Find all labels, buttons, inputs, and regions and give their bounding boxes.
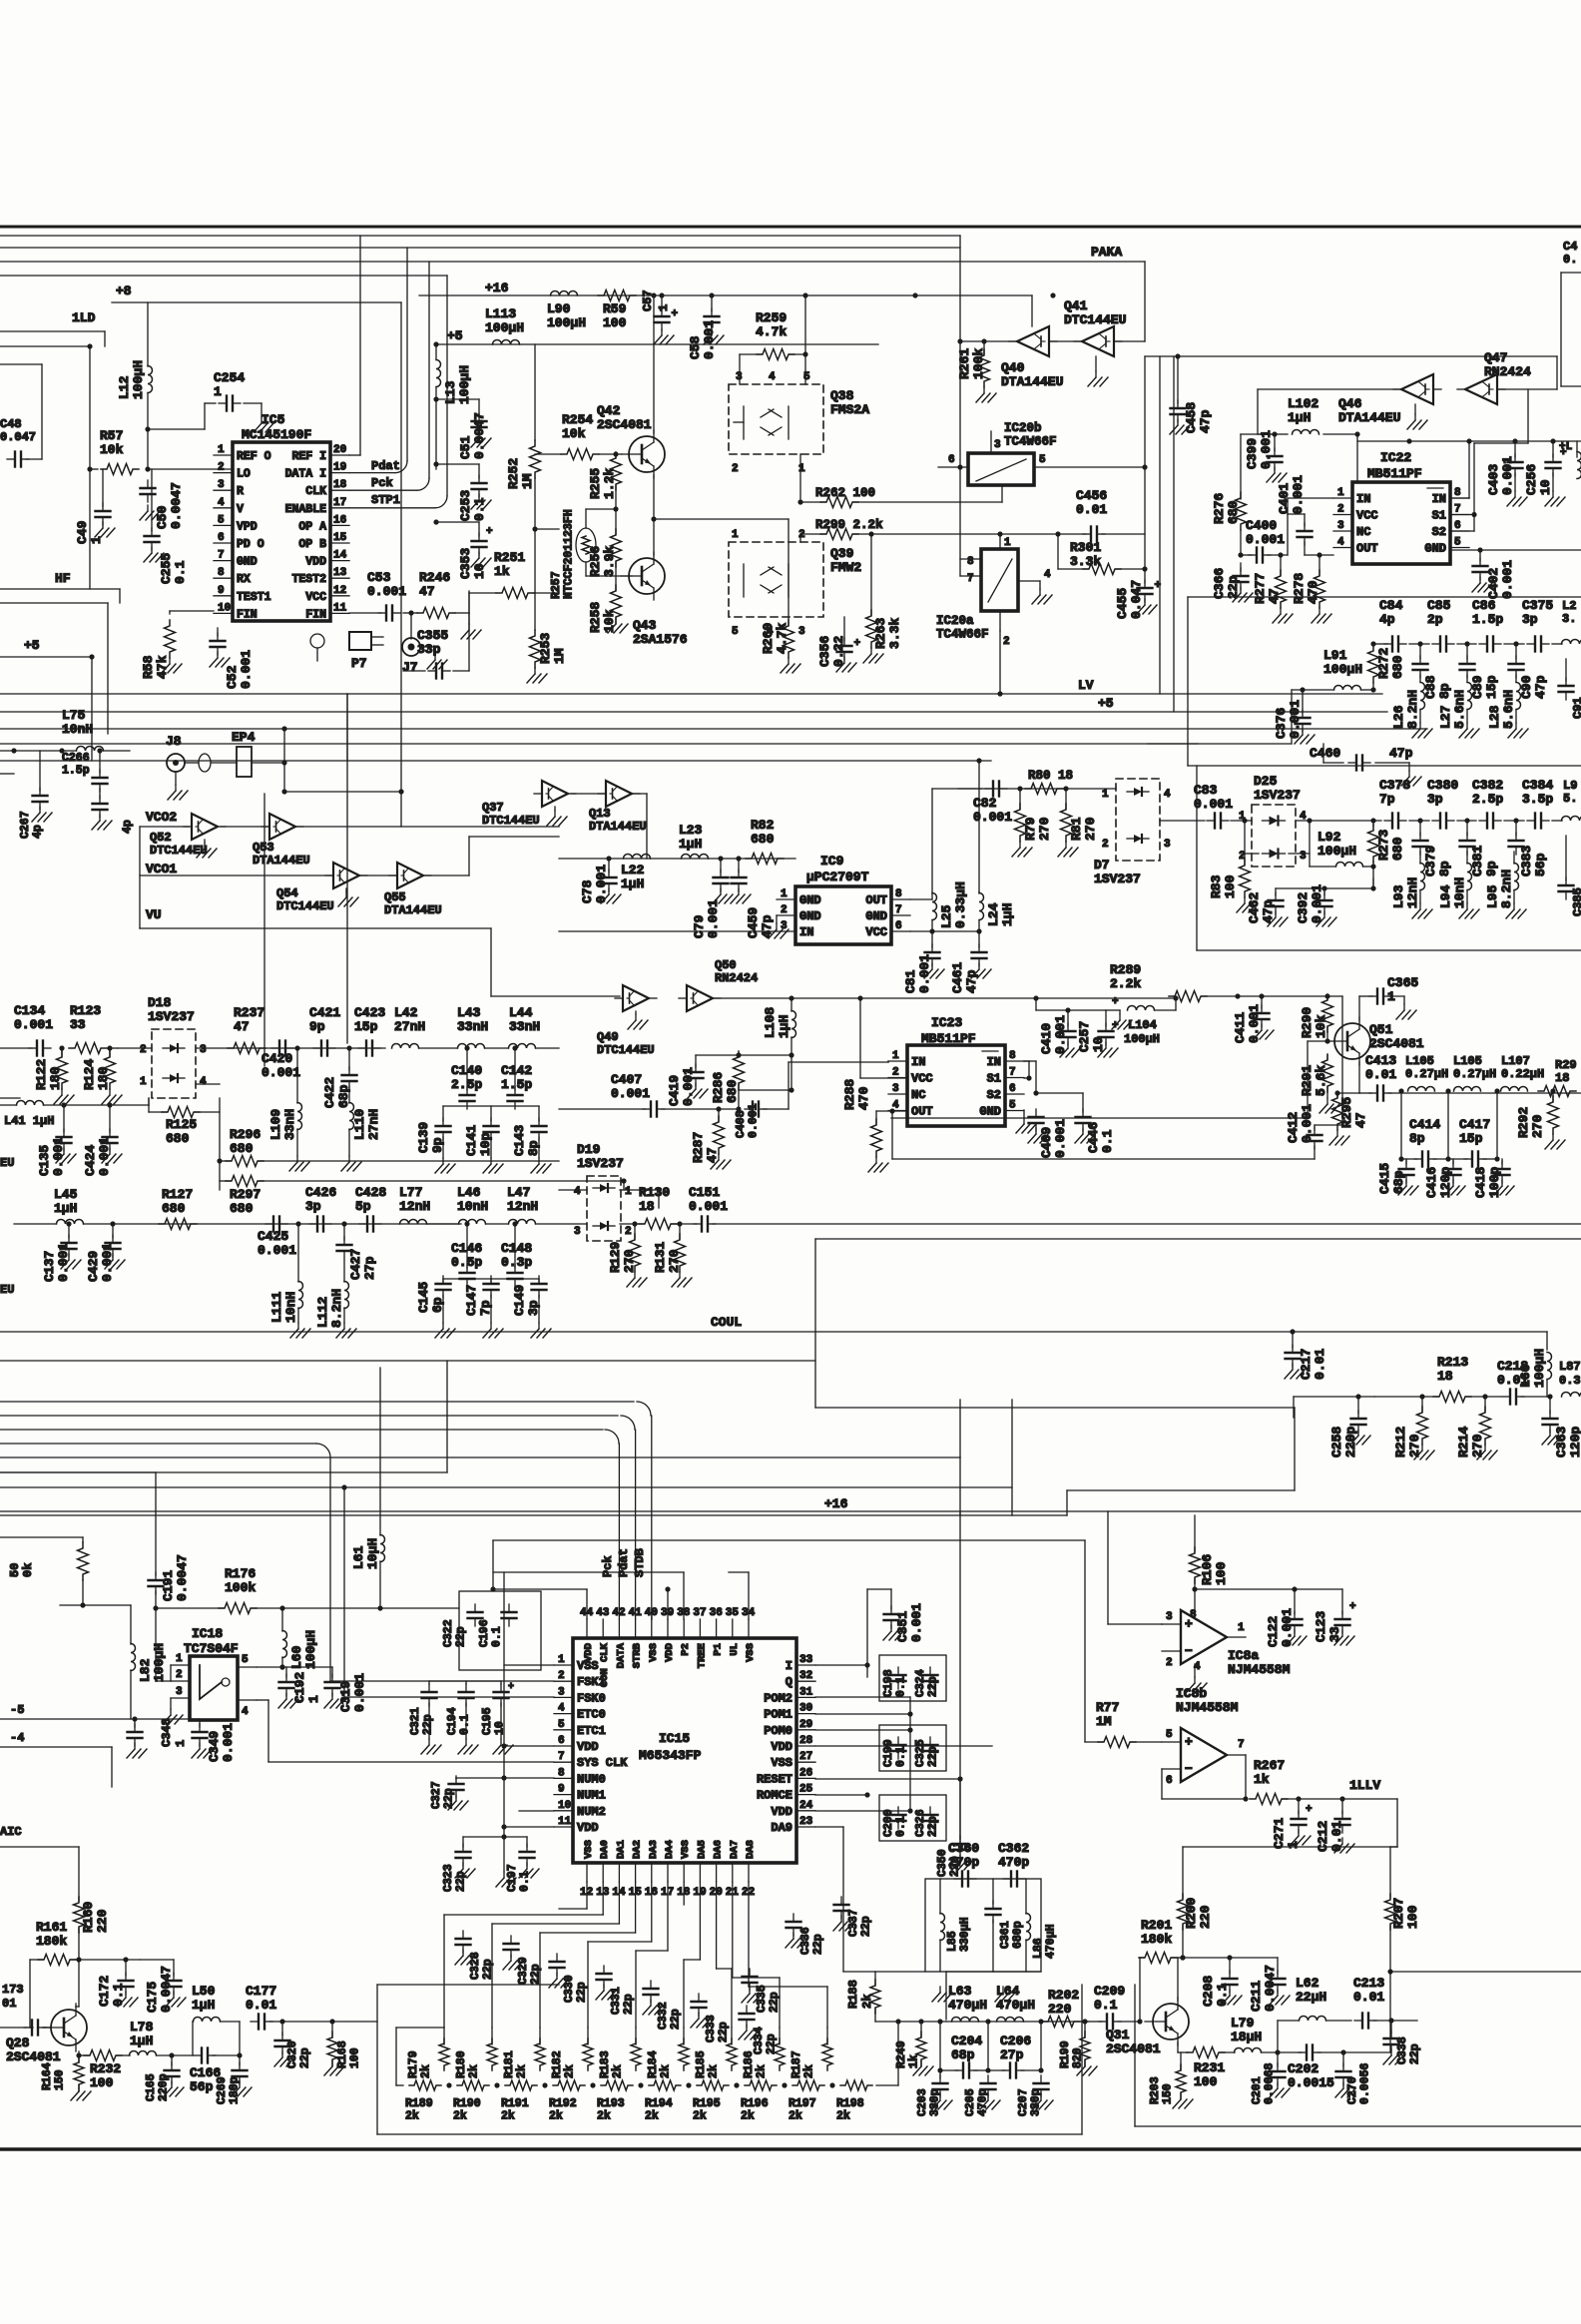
capacitor C191 <box>149 1472 191 1608</box>
capacitor C355 <box>403 591 469 679</box>
svg-text:680: 680 <box>725 1079 740 1103</box>
transistor Q55 <box>384 863 442 917</box>
wire 1975 <box>1390 1972 1581 2021</box>
svg-text:10nH: 10nH <box>1452 877 1467 908</box>
op IC15 box <box>573 1638 796 1863</box>
inductor L28 <box>1487 675 1528 738</box>
svg-text:0.001: 0.001 <box>706 899 721 938</box>
svg-text:5.: 5. <box>1563 792 1577 806</box>
wire bus G <box>0 760 991 762</box>
capacitor C200 box <box>879 1795 946 1841</box>
capacitor C333 <box>691 1994 731 2042</box>
svg-text:5p: 5p <box>355 1199 371 1214</box>
node +5 <box>447 328 463 343</box>
capacitor C140 <box>451 1045 482 1109</box>
op IC22 label <box>1367 450 1422 481</box>
svg-text:8.2nH: 8.2nH <box>1405 690 1420 729</box>
svg-text:5.6nH: 5.6nH <box>1501 690 1516 729</box>
svg-text:TEST2: TEST2 <box>291 573 326 586</box>
svg-text:3: 3 <box>1164 839 1171 851</box>
node VU <box>146 907 162 922</box>
svg-text:R200: R200 <box>1184 1898 1199 1929</box>
svg-text:1SV237: 1SV237 <box>148 1009 195 1024</box>
svg-text:C421: C421 <box>309 1005 340 1020</box>
svg-text:L44: L44 <box>509 1005 533 1020</box>
svg-text:3: 3 <box>176 1686 183 1698</box>
wire bus B <box>0 247 960 249</box>
capacitor C271 <box>1272 1796 1313 1849</box>
capacitor C134 <box>0 1003 53 1056</box>
svg-text:8.2nH: 8.2nH <box>1499 870 1514 908</box>
wire <box>433 461 479 466</box>
wire vcc <box>910 928 982 933</box>
svg-text:22p: 22p <box>455 1871 468 1892</box>
wire <box>1343 2021 1390 2052</box>
svg-text:C382: C382 <box>1472 778 1503 793</box>
svg-text:4: 4 <box>1337 537 1344 549</box>
svg-text:P2: P2 <box>680 1643 692 1656</box>
svg-text:C408: C408 <box>735 1110 748 1138</box>
svg-text:0.001: 0.001 <box>239 650 254 689</box>
wire <box>535 528 559 530</box>
wire d19 <box>559 1190 659 1208</box>
transistor Q41 DTC144EU <box>1064 298 1126 386</box>
capacitor C175 <box>140 1960 186 2013</box>
svg-text:22p: 22p <box>718 2022 731 2042</box>
svg-text:C428: C428 <box>355 1185 386 1200</box>
resistor R179-R187 verticals <box>439 2028 832 2070</box>
svg-text:OUT: OUT <box>865 893 887 907</box>
svg-text:R273: R273 <box>1376 830 1391 861</box>
svg-text:C353: C353 <box>458 548 473 579</box>
capacitor C423 <box>354 1005 385 1056</box>
svg-text:L113: L113 <box>485 306 516 321</box>
svg-text:C196: C196 <box>478 1619 491 1647</box>
svg-text:6: 6 <box>1166 1775 1173 1787</box>
wire pin20 <box>349 236 360 455</box>
svg-text:6: 6 <box>218 532 225 544</box>
wire <box>739 1087 794 1092</box>
svg-text:Q49: Q49 <box>597 1030 619 1044</box>
capacitor C322 <box>442 1619 468 1647</box>
capacitor C361 <box>986 1879 1025 1972</box>
svg-text:R191: R191 <box>501 2097 529 2110</box>
svg-text:R181: R181 <box>503 2050 516 2078</box>
wire +16 into q40 <box>1031 295 1033 326</box>
svg-text:VU: VU <box>146 907 162 922</box>
svg-text:Q38: Q38 <box>830 388 854 403</box>
svg-text:19: 19 <box>333 462 346 474</box>
op IC22 box <box>1352 482 1450 564</box>
inductor L90 <box>547 291 586 331</box>
svg-text:L12: L12 <box>117 375 132 399</box>
svg-text:2: 2 <box>140 1044 147 1056</box>
op IC20b <box>938 421 1148 485</box>
svg-text:1µH: 1µH <box>54 1201 77 1216</box>
svg-text:C407: C407 <box>611 1072 642 1087</box>
capacitor C319 <box>324 1667 367 1712</box>
svg-text:1SV237: 1SV237 <box>1094 871 1141 886</box>
svg-text:-4: -4 <box>10 1731 24 1745</box>
diode D25 <box>1239 774 1307 867</box>
svg-text:Q51: Q51 <box>1369 1022 1393 1037</box>
svg-text:0.001: 0.001 <box>1246 532 1285 547</box>
svg-text:R213: R213 <box>1437 1355 1468 1370</box>
wire in8 <box>1024 1061 1083 1096</box>
transistor Q40 DTA144EU <box>1001 326 1063 389</box>
svg-text:8: 8 <box>1190 1609 1197 1621</box>
wire pom rows <box>815 1662 992 1972</box>
svg-text:R129: R129 <box>608 1242 623 1273</box>
wire +5 left <box>0 654 95 761</box>
capacitor C330 <box>549 1954 589 2003</box>
wire +5 rail <box>433 341 878 346</box>
resistor R252 <box>506 344 541 529</box>
svg-text:L105: L105 <box>1405 1054 1434 1068</box>
svg-text:C456: C456 <box>1076 488 1107 503</box>
resistor R176 <box>153 1566 380 1614</box>
svg-text:OP A: OP A <box>298 520 326 533</box>
svg-text:L77: L77 <box>399 1185 422 1200</box>
node Q31 base <box>1139 2021 1141 2023</box>
capacitor C213 <box>1353 1976 1417 2029</box>
svg-text:Q52: Q52 <box>150 831 172 845</box>
svg-text:R252: R252 <box>506 458 521 489</box>
svg-text:R278: R278 <box>1292 573 1307 604</box>
svg-text:+L: +L <box>1559 441 1573 453</box>
svg-text:C266: C266 <box>62 752 90 765</box>
wire q50 out <box>791 997 1176 999</box>
inductor L47 <box>486 1185 587 1224</box>
svg-text:EU: EU <box>0 1283 14 1297</box>
wire coul2 <box>1294 1397 1374 1418</box>
node +5 left <box>24 638 40 653</box>
resistor R261 <box>957 338 996 402</box>
capacitor C201 <box>1251 2049 1290 2104</box>
capacitor C446 <box>1075 1093 1115 1153</box>
svg-text:R297: R297 <box>230 1187 261 1202</box>
connector J8 <box>166 734 211 800</box>
svg-text:2k: 2k <box>789 2110 802 2123</box>
ground L104 <box>1106 996 1132 1029</box>
wire S1 <box>1450 515 1474 532</box>
svg-text:0.001: 0.001 <box>367 584 406 599</box>
wire pin40 <box>651 1609 653 1619</box>
svg-text:C360: C360 <box>948 1841 979 1856</box>
svg-text:C85: C85 <box>1427 598 1451 613</box>
wire -4 <box>0 1731 112 1787</box>
resistor R201 <box>1139 1918 1183 1964</box>
border bottom thick <box>0 2147 1581 2151</box>
svg-text:IC5: IC5 <box>262 412 285 427</box>
resistor R123 <box>69 1003 107 1054</box>
svg-text:R253: R253 <box>538 633 553 664</box>
wire pin34 <box>729 1572 749 1619</box>
resistor R286 <box>711 1051 745 1103</box>
wire Q42-Q43 <box>653 475 655 555</box>
svg-text:50: 50 <box>8 1563 22 1577</box>
wire stdb <box>0 1402 652 1619</box>
resistor R189 label <box>405 2097 433 2123</box>
svg-text:5: 5 <box>732 626 739 638</box>
inductor L110 <box>341 1086 381 1171</box>
op IC9 pins <box>777 888 910 939</box>
svg-text:P1: P1 <box>713 1643 725 1656</box>
inductor L44 <box>485 1005 559 1048</box>
svg-text:C269: C269 <box>216 2076 229 2104</box>
svg-text:0.001: 0.001 <box>352 1673 367 1712</box>
capacitor C53 <box>349 570 406 621</box>
svg-text:22µH: 22µH <box>1296 1990 1326 2005</box>
wire r188 row <box>875 2019 946 2024</box>
svg-text:270p: 270p <box>948 1855 979 1870</box>
wire node <box>0 343 93 589</box>
svg-text:NJM4558M: NJM4558M <box>1176 1700 1239 1715</box>
svg-text:0.001: 0.001 <box>1259 430 1274 469</box>
resistor R249 <box>895 2019 933 2075</box>
svg-text:LO: LO <box>237 468 251 481</box>
inductor L61 <box>351 1368 385 1611</box>
svg-text:0.001: 0.001 <box>681 1067 696 1106</box>
capacitor C353 <box>458 522 493 579</box>
svg-text:0.001: 0.001 <box>1194 797 1233 812</box>
svg-text:2k: 2k <box>549 2110 563 2123</box>
node VCO1 <box>146 862 177 876</box>
svg-text:C205: C205 <box>964 2088 977 2116</box>
svg-text:VDD: VDD <box>577 1821 599 1835</box>
capacitor C384 <box>1522 778 1553 829</box>
svg-text:C192: C192 <box>292 1672 307 1703</box>
svg-text:L107: L107 <box>1501 1054 1530 1068</box>
svg-text:R189: R189 <box>405 2097 433 2110</box>
svg-text:9: 9 <box>218 585 225 597</box>
svg-text:0.001: 0.001 <box>1300 1104 1315 1143</box>
resistor R213 <box>1433 1355 1471 1403</box>
capacitor C165 <box>145 2052 184 2101</box>
wire <box>736 1090 741 1112</box>
resistor R231 <box>1187 2047 1235 2090</box>
resistor R255 <box>588 451 622 499</box>
svg-text:AIC: AIC <box>0 1825 22 1839</box>
svg-text:1: 1 <box>176 1653 183 1665</box>
svg-text:2: 2 <box>1003 636 1010 648</box>
resistor R188 <box>846 1972 925 2022</box>
wire <box>456 1777 504 1779</box>
svg-text:680: 680 <box>1226 500 1241 524</box>
svg-text:C427: C427 <box>348 1249 363 1280</box>
svg-text:L22: L22 <box>621 863 645 877</box>
svg-text:IC22: IC22 <box>1380 450 1411 465</box>
svg-text:3.3k: 3.3k <box>1070 554 1101 569</box>
capacitor C326 <box>914 1809 940 1837</box>
inductor L109 <box>268 1045 309 1171</box>
svg-text:0.1: 0.1 <box>459 1714 472 1735</box>
svg-text:C413: C413 <box>1365 1053 1396 1068</box>
capacitor C270 <box>1335 2049 1372 2104</box>
svg-text:IC20a: IC20a <box>936 614 974 628</box>
capacitor C327 <box>430 1776 468 1810</box>
svg-text:7: 7 <box>1009 1067 1016 1079</box>
svg-text:C204: C204 <box>951 2033 982 2048</box>
svg-text:+: + <box>854 638 861 650</box>
svg-text:C194: C194 <box>446 1707 459 1735</box>
svg-text:Q39: Q39 <box>830 546 854 561</box>
wire up to R80 <box>932 789 982 893</box>
capacitor C408 <box>735 1102 789 1139</box>
section box row1 <box>1188 597 1581 766</box>
svg-text:18: 18 <box>333 479 347 491</box>
wire <box>957 236 962 576</box>
svg-text:L105: L105 <box>1453 1054 1482 1068</box>
svg-text:10k: 10k <box>562 426 586 441</box>
svg-text:680p: 680p <box>1012 1921 1025 1949</box>
svg-text:L63: L63 <box>948 1984 972 1999</box>
wire <box>433 519 479 524</box>
resistor R296 <box>217 1127 559 1167</box>
transistor Q46 DTA144EU <box>1338 374 1441 429</box>
wire r176-c322 <box>380 1607 459 1609</box>
svg-text:14: 14 <box>333 550 347 562</box>
svg-text:0.001: 0.001 <box>14 1017 53 1032</box>
svg-text:2: 2 <box>798 529 805 541</box>
svg-text:DTC144EU: DTC144EU <box>276 899 334 913</box>
wire fb <box>1161 1623 1163 1625</box>
svg-text:STP1: STP1 <box>371 493 400 507</box>
svg-text:12nH: 12nH <box>1405 877 1420 908</box>
svg-text:2k: 2k <box>756 2064 769 2078</box>
svg-text:220: 220 <box>95 1909 110 1933</box>
svg-text:+: + <box>486 526 493 538</box>
transistor Q13 <box>589 781 647 834</box>
svg-text:0.001: 0.001 <box>56 1243 71 1282</box>
svg-text:2.2k: 2.2k <box>1110 976 1141 991</box>
svg-text:R106: R106 <box>1200 1554 1215 1585</box>
svg-text:IC20b: IC20b <box>1004 421 1042 435</box>
svg-text:C135: C135 <box>37 1145 52 1176</box>
svg-text:L95: L95 <box>1485 884 1500 908</box>
svg-text:L9: L9 <box>1563 779 1577 793</box>
svg-text:47p: 47p <box>964 969 979 993</box>
svg-text:REF O: REF O <box>237 450 271 463</box>
inductor L108 <box>763 998 796 1090</box>
svg-text:41: 41 <box>629 1607 643 1619</box>
wire out <box>892 1111 1315 1159</box>
resistor R258 <box>588 562 628 633</box>
svg-text:C122: C122 <box>1266 1616 1281 1647</box>
inductor L77 <box>399 1185 430 1224</box>
resistor R125 <box>162 1107 200 1147</box>
svg-text:R81: R81 <box>1069 817 1084 841</box>
wire fsk0 <box>341 1484 554 1697</box>
svg-text:5: 5 <box>242 1654 249 1666</box>
svg-text:8: 8 <box>558 1767 565 1779</box>
wire <box>429 1681 501 1684</box>
wire trap <box>946 1972 1041 2020</box>
svg-text:+5: +5 <box>1098 696 1114 711</box>
svg-text:L109: L109 <box>268 1109 283 1140</box>
capacitor C142 <box>501 1045 532 1109</box>
svg-text:S2: S2 <box>987 1088 1001 1102</box>
svg-text:M65343FP: M65343FP <box>639 1748 702 1763</box>
inductor L86 <box>1026 1879 1058 1972</box>
svg-text:C424: C424 <box>83 1145 98 1176</box>
transistor Q31 <box>1106 1998 1189 2056</box>
capacitor C360 <box>948 1841 979 1887</box>
svg-text:0k: 0k <box>21 1563 35 1577</box>
svg-text:2k: 2k <box>645 2110 659 2123</box>
connector P7 <box>310 632 383 671</box>
resistor R297 <box>220 1176 627 1217</box>
svg-text:R125: R125 <box>166 1117 197 1132</box>
svg-text:R231: R231 <box>1194 2060 1225 2075</box>
svg-text:C209: C209 <box>1094 1984 1125 1999</box>
svg-text:FIN: FIN <box>237 608 258 621</box>
svg-text:Q47: Q47 <box>1484 350 1507 365</box>
svg-text:ENABLE: ENABLE <box>285 503 327 516</box>
svg-text:180: 180 <box>48 1066 63 1090</box>
svg-text:NC: NC <box>1356 525 1370 539</box>
svg-text:1µH: 1µH <box>621 876 644 891</box>
capacitor C196 <box>478 1619 504 1647</box>
svg-text:C459: C459 <box>746 907 761 938</box>
svg-text:10µH: 10µH <box>365 1538 380 1569</box>
svg-text:1µH: 1µH <box>192 1998 215 2013</box>
svg-text:Q41: Q41 <box>1064 298 1088 313</box>
svg-text:C253: C253 <box>458 490 473 521</box>
svg-text:100µH: 100µH <box>1323 662 1362 677</box>
svg-text:0.01: 0.01 <box>1365 1067 1396 1082</box>
svg-text:R272: R272 <box>1376 648 1391 679</box>
svg-text:TC4W66F: TC4W66F <box>1004 435 1057 449</box>
svg-text:33p: 33p <box>417 642 441 657</box>
svg-text:33nH: 33nH <box>282 1109 297 1140</box>
wire <box>79 1957 140 1962</box>
wire collector <box>1178 1955 1186 2001</box>
svg-text:L108: L108 <box>763 1007 778 1038</box>
svg-text:DA2: DA2 <box>632 1840 644 1859</box>
wire riser 1147 <box>1144 356 1146 569</box>
svg-text:1µH: 1µH <box>1288 410 1311 425</box>
capacitor C145 <box>416 1276 455 1338</box>
svg-text:270: 270 <box>1037 817 1052 841</box>
svg-text:1: 1 <box>657 304 671 311</box>
svg-text:2: 2 <box>625 1226 632 1238</box>
svg-text:DATA: DATA <box>615 1642 627 1668</box>
svg-text:22p: 22p <box>927 1746 940 1767</box>
svg-text:Q55: Q55 <box>384 890 406 904</box>
svg-text:1LLV: 1LLV <box>1349 1778 1380 1793</box>
svg-text:5: 5 <box>803 371 810 383</box>
svg-text:23: 23 <box>799 1816 813 1828</box>
inductor L23 <box>679 823 709 859</box>
svg-text:27nH: 27nH <box>366 1109 381 1140</box>
svg-text:L79: L79 <box>1231 2016 1255 2031</box>
capacitor C149 <box>512 1276 551 1338</box>
svg-text:L13: L13 <box>443 380 458 404</box>
svg-text:C356: C356 <box>817 636 832 667</box>
svg-text:+5: +5 <box>24 638 40 653</box>
capacitor C418 <box>1473 1159 1514 1198</box>
svg-text:2: 2 <box>732 463 739 475</box>
inductor L87 <box>1559 1360 1581 1397</box>
svg-text:C78: C78 <box>580 879 595 903</box>
svg-text:R207: R207 <box>1391 1898 1406 1929</box>
wire HF <box>0 589 120 603</box>
capacitor C424 <box>83 1102 122 1176</box>
svg-text:IN: IN <box>799 925 813 939</box>
svg-text:REF I: REF I <box>291 450 326 463</box>
svg-text:DA4: DA4 <box>664 1840 676 1859</box>
